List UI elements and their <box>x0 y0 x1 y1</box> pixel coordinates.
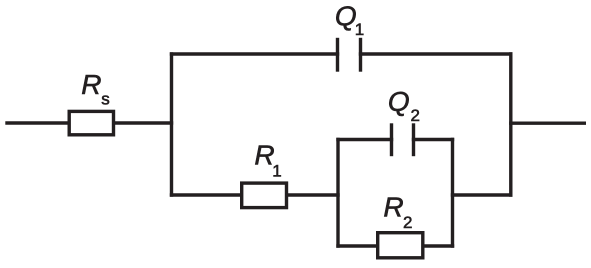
input terminal wire <box>7 121 69 124</box>
svg-text:1: 1 <box>272 162 281 181</box>
parallel group bottom wire left <box>338 244 378 247</box>
output terminal wire <box>511 121 585 124</box>
svg-text:1: 1 <box>355 20 364 39</box>
parallel group right vertical wire <box>451 140 454 247</box>
parallel group left vertical wire <box>336 140 339 247</box>
wire R1 to parallel group <box>287 193 338 196</box>
svg-text:s: s <box>101 90 110 109</box>
capacitor Q2 right plate <box>412 125 415 155</box>
wire bottom branch left <box>172 193 242 196</box>
wire top branch left <box>172 52 338 55</box>
svg-text:Q: Q <box>388 86 410 117</box>
svg-text:Q: Q <box>335 1 357 32</box>
wire Rs to node A <box>114 121 172 124</box>
node A : left vertical wire <box>170 54 173 195</box>
resistor Rs <box>69 111 113 134</box>
capacitor Q1 right plate <box>359 40 362 71</box>
resistor R2 <box>378 233 423 258</box>
parallel group top wire right <box>414 138 453 141</box>
capacitor Q1 left plate <box>336 40 339 71</box>
svg-text:2: 2 <box>411 106 420 125</box>
parallel group top wire left <box>338 138 392 141</box>
svg-text:2: 2 <box>403 213 412 232</box>
capacitor Q2 left plate <box>390 125 393 155</box>
parallel group bottom wire right <box>424 244 453 247</box>
node B : right vertical wire <box>509 54 512 195</box>
wire parallel group to node B <box>453 193 511 196</box>
svg-text:R: R <box>383 191 403 222</box>
resistor R1 <box>242 183 287 208</box>
wire top branch right <box>361 52 511 55</box>
svg-text:R: R <box>81 69 101 100</box>
